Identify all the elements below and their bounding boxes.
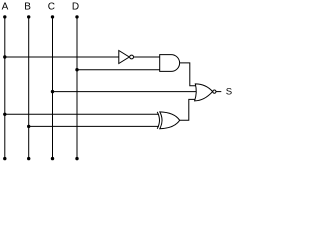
wire B to XOR bottom input [29,125,159,127]
wire A to XOR top input [5,113,159,115]
node A bottom terminal [3,157,6,160]
node B top terminal [27,15,30,18]
wire A vertical [4,17,6,159]
junction A / NOT-input wire [3,55,6,58]
node D top terminal [75,15,78,18]
node B bottom terminal [27,157,30,160]
node C bottom terminal [51,157,54,160]
wire D vertical [76,17,78,159]
junction C / NOR-input wire [51,90,54,93]
wire XOR output to NOR bottom input [180,99,196,120]
svg-text:C: C [48,2,55,13]
XOR gate [157,112,180,129]
wire C to NOR middle input [53,91,197,93]
NOR gate [195,84,216,101]
svg-text:A: A [2,2,9,13]
node C top terminal [51,15,54,18]
wire NOR output to S [216,91,221,93]
junction D / AND-input wire [75,68,78,71]
wire C vertical [52,17,54,159]
wire A to NOT gate input [5,56,119,58]
svg-text:S: S [226,87,232,98]
node A top terminal [3,15,6,18]
wire D to AND bottom input [77,69,160,71]
node D bottom terminal [75,157,78,160]
wire B vertical [28,17,30,159]
junction A / XOR-input wire [3,113,6,116]
AND gate [160,55,180,72]
wire NOT output to AND top input [134,56,160,58]
svg-text:D: D [72,2,79,13]
wire AND output to NOR top input [180,63,196,86]
junction B / XOR-input wire [27,125,30,128]
svg-text:B: B [24,2,31,13]
NOT gate [119,51,134,64]
